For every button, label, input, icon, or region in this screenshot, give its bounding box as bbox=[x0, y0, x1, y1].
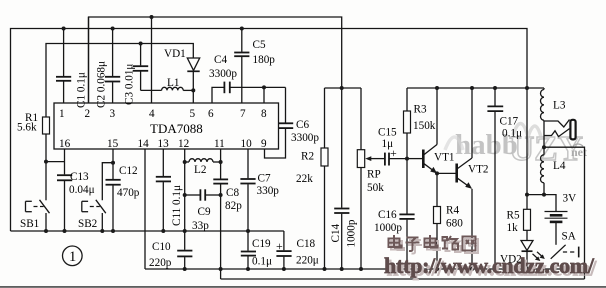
svg-text:220μ: 220μ bbox=[296, 255, 319, 267]
svg-text:C15: C15 bbox=[378, 127, 397, 139]
inductor L1 bbox=[141, 87, 194, 90]
resistor R1 bbox=[43, 117, 50, 200]
junction C17 bus bbox=[493, 86, 497, 90]
svg-text:1: 1 bbox=[69, 249, 76, 265]
svg-text:C13: C13 bbox=[70, 171, 89, 183]
svg-text:L1: L1 bbox=[167, 77, 179, 89]
svg-text:22k: 22k bbox=[296, 173, 313, 185]
svg-text:1k: 1k bbox=[507, 222, 519, 234]
junction VT1 collector bus bbox=[435, 86, 439, 90]
inductor L3 bbox=[541, 88, 545, 120]
junction C9 right bbox=[219, 193, 223, 197]
junction C16 rail269 bbox=[405, 267, 409, 271]
svg-text:C2 0.068μ: C2 0.068μ bbox=[96, 61, 108, 108]
svg-text:+: + bbox=[390, 146, 397, 160]
svg-text:C14: C14 bbox=[330, 223, 342, 242]
svg-text:C6: C6 bbox=[296, 119, 309, 131]
svg-text:4: 4 bbox=[149, 108, 155, 120]
resistor R5 bbox=[524, 88, 531, 230]
wire: VT1 emitter node to VT2 base bbox=[437, 172, 456, 174]
svg-text:C18: C18 bbox=[297, 238, 316, 250]
rail: outer ground rail y=279 bbox=[221, 278, 585, 280]
svg-text:0.04μ: 0.04μ bbox=[69, 184, 95, 196]
svg-text:11: 11 bbox=[214, 138, 225, 150]
svg-text:15: 15 bbox=[107, 138, 119, 150]
capacitor C17 bbox=[487, 88, 503, 269]
junction L2 left bbox=[183, 160, 187, 164]
wire: R1 top rail y=43.5 bbox=[46, 44, 193, 118]
svg-text:C12: C12 bbox=[119, 165, 138, 177]
resistor R4 bbox=[434, 173, 441, 269]
svg-text:10: 10 bbox=[241, 138, 253, 150]
svg-text:330p: 330p bbox=[257, 185, 280, 197]
svg-text:C9: C9 bbox=[198, 206, 211, 218]
capacitor C12 (pin15 column) bbox=[106, 149, 121, 231]
svg-text:+: + bbox=[276, 239, 283, 253]
capacitor C5 (pin7 column) bbox=[234, 29, 249, 104]
svg-text:R3: R3 bbox=[414, 104, 427, 116]
transistor VT2 bbox=[457, 88, 472, 269]
svg-text:C7: C7 bbox=[258, 173, 271, 185]
svg-text:3: 3 bbox=[110, 108, 116, 120]
wire: base feed to VT1 bbox=[407, 158, 422, 160]
capacitor C7 (pin10 column) bbox=[240, 149, 255, 231]
svg-text:7: 7 bbox=[240, 108, 246, 120]
svg-text:0.1μ: 0.1μ bbox=[252, 256, 272, 268]
earphone jack contact 2 bbox=[544, 129, 570, 137]
svg-text:2: 2 bbox=[85, 108, 91, 120]
svg-text:1: 1 bbox=[59, 108, 65, 120]
wire: pin2 column crossing bbox=[88, 17, 90, 103]
earphone plug bbox=[570, 120, 575, 140]
junction C13 rail231 bbox=[63, 229, 67, 233]
junction L3 L4 tap bbox=[542, 145, 546, 149]
capacitor C15 (electrolytic, coupling) bbox=[385, 153, 407, 166]
junction R3 C15 VT1 base bbox=[405, 157, 409, 161]
junction R1 pin16 jog bbox=[44, 160, 48, 164]
junction SB2 rail231 bbox=[100, 229, 104, 233]
diode VD1 (varicap) bbox=[187, 58, 199, 103]
svg-text:C10: C10 bbox=[152, 241, 171, 253]
capacitor C10 bbox=[177, 231, 192, 269]
switch SA bbox=[551, 245, 579, 259]
junction supply bus right bbox=[525, 86, 529, 90]
junction C9 left bbox=[183, 193, 187, 197]
inductor L2 bbox=[185, 159, 221, 162]
capacitor C16 bbox=[399, 159, 414, 269]
svg-text:C1 0.1μ: C1 0.1μ bbox=[76, 72, 88, 108]
junction R2 rail269 bbox=[323, 267, 327, 271]
junction mid bar bbox=[340, 86, 344, 90]
svg-text:L4: L4 bbox=[553, 160, 566, 172]
svg-text:8: 8 bbox=[261, 108, 267, 120]
svg-text:9: 9 bbox=[261, 138, 267, 150]
svg-text:TDA7088: TDA7088 bbox=[150, 121, 203, 136]
capacitor C1 (pin1 column) bbox=[56, 29, 71, 104]
svg-text:50k: 50k bbox=[367, 182, 384, 194]
junction pin8 C4 wire bbox=[262, 85, 266, 89]
svg-text:VD1: VD1 bbox=[164, 48, 186, 60]
junction pin15 jog bbox=[111, 161, 115, 165]
svg-text:12: 12 bbox=[178, 138, 189, 150]
wire: pin8 stub bbox=[263, 87, 265, 103]
capacitor C9 bbox=[185, 189, 221, 200]
junction C14 rail269 bbox=[340, 267, 344, 271]
junction C12 rail231 bbox=[111, 229, 115, 233]
capacitor C3 (varicap coupling) bbox=[133, 44, 148, 91]
transistor VT1 bbox=[423, 88, 437, 173]
svg-text:VT1: VT1 bbox=[434, 152, 455, 164]
svg-text:180p: 180p bbox=[253, 54, 276, 66]
wire: tap column between contacts and L4 bbox=[543, 121, 545, 155]
svg-text:C4: C4 bbox=[214, 54, 227, 66]
svg-text:3300p: 3300p bbox=[291, 132, 319, 144]
svg-text:82p: 82p bbox=[225, 200, 242, 212]
junction R4 rail269 bbox=[435, 267, 439, 271]
svg-text:R5: R5 bbox=[507, 210, 520, 222]
switch SB1 bbox=[26, 200, 50, 231]
wire: pin4 column bbox=[151, 17, 153, 103]
svg-text:16: 16 bbox=[59, 138, 71, 150]
diode VD2 (LED) bbox=[521, 230, 545, 269]
svg-text:13: 13 bbox=[158, 138, 170, 150]
junction VT2 emitter rail269 bbox=[470, 267, 474, 271]
rail: ground rail y=269 bbox=[145, 268, 585, 270]
junction C5 supply rail bbox=[240, 27, 244, 31]
svg-text:SB2: SB2 bbox=[78, 218, 97, 230]
svg-text:http://www.cndzz.com/: http://www.cndzz.com/ bbox=[384, 253, 595, 278]
capacitor C18 (electrolytic) bbox=[276, 231, 291, 269]
svg-text:150k: 150k bbox=[413, 120, 436, 132]
junction C3 top wire bbox=[139, 42, 143, 46]
earphone jack contact 1 bbox=[544, 120, 570, 128]
capacitor C2 (pin3 column) bbox=[105, 29, 120, 104]
junction C11 rail231 bbox=[161, 229, 165, 233]
wire: supply bus y=88 right section bbox=[407, 87, 544, 89]
svg-text:5.6k: 5.6k bbox=[17, 122, 37, 134]
switch SB2 bbox=[82, 200, 106, 231]
junction RP rail269 bbox=[359, 267, 363, 271]
junction L2 right bbox=[219, 160, 223, 164]
svg-text:SA: SA bbox=[562, 231, 576, 243]
svg-text:1000p: 1000p bbox=[346, 219, 358, 247]
junction pin11 rail269 bbox=[219, 267, 223, 271]
svg-text:R4: R4 bbox=[446, 205, 459, 217]
svg-text:SB1: SB1 bbox=[20, 218, 39, 230]
capacitor C4 with pin6 / pin8 wire y=87.4 bbox=[212, 82, 286, 103]
junction pin4 top rail bbox=[150, 15, 154, 19]
svg-text:C19: C19 bbox=[252, 238, 271, 250]
svg-text:3300p: 3300p bbox=[209, 68, 237, 80]
node circled-1 figure number bbox=[63, 246, 83, 266]
op IC U1 TDA7088 box bbox=[54, 103, 279, 149]
junction C2 supply rail bbox=[111, 27, 115, 31]
capacitor C8 (pin11 column) bbox=[213, 149, 228, 279]
wire: battery top feed y=194.6 bbox=[527, 195, 556, 211]
wire: tap to right edge y=147 bbox=[544, 147, 585, 279]
svg-text:C3 0.01μ: C3 0.01μ bbox=[124, 64, 136, 105]
junction L4 battery wire bbox=[542, 193, 546, 197]
resistor R2 bbox=[321, 88, 328, 269]
junction VT1 emitter R4 VT2 base bbox=[435, 171, 439, 175]
potentiometer RP bbox=[357, 88, 384, 269]
resistor R3 bbox=[404, 88, 411, 159]
junction VD2 rail269 bbox=[525, 267, 529, 271]
capacitor C11 (pin13 column) bbox=[156, 149, 171, 231]
svg-text:14: 14 bbox=[138, 138, 150, 150]
svg-text:C16: C16 bbox=[378, 209, 397, 221]
junction C10 rail269 bbox=[183, 267, 187, 271]
junction SB1 rail231 bbox=[44, 229, 48, 233]
junction VT2 collector bus bbox=[470, 86, 474, 90]
svg-text:C17: C17 bbox=[500, 116, 519, 128]
svg-text:R2: R2 bbox=[301, 151, 314, 163]
inductor L4 bbox=[541, 155, 545, 195]
svg-text:C8: C8 bbox=[226, 187, 239, 199]
svg-text:C5: C5 bbox=[253, 39, 266, 51]
svg-text:RP: RP bbox=[367, 169, 381, 181]
capacitor C14 bbox=[334, 88, 349, 269]
svg-text:33p: 33p bbox=[192, 220, 209, 232]
svg-text:6: 6 bbox=[208, 108, 214, 120]
battery GB 3V bbox=[545, 212, 568, 245]
capacitor C13 (pin16 column) bbox=[57, 149, 72, 231]
wire: pin12 column bbox=[184, 149, 186, 231]
svg-text:470p: 470p bbox=[117, 187, 140, 199]
wire: pin15 jog to SB2 bbox=[102, 163, 113, 201]
svg-text:3V: 3V bbox=[563, 193, 577, 205]
capacitor C19 bbox=[241, 231, 256, 269]
wire: pin14 column down to lower rail bbox=[144, 149, 146, 269]
junction C18 rail269 bbox=[282, 267, 286, 271]
svg-text:5: 5 bbox=[190, 108, 196, 120]
watermark habbuy gray (under circuit) bbox=[445, 123, 587, 168]
rail: V+ bottom rail y=231 bbox=[11, 230, 284, 232]
svg-text:VT2: VT2 bbox=[468, 164, 489, 176]
capacitor C6 (to pin9) bbox=[265, 87, 294, 158]
svg-text:0.1μ: 0.1μ bbox=[502, 128, 522, 140]
wire: pin16 to R1 column jog bbox=[46, 161, 65, 163]
svg-text:C11 0.1μ: C11 0.1μ bbox=[171, 185, 183, 226]
svg-text:L3: L3 bbox=[553, 100, 566, 112]
junction VD1 L1 pin5 bbox=[191, 88, 195, 92]
svg-text:1000p: 1000p bbox=[374, 222, 402, 234]
wire: top rail y=17 (pin2 to mid column) bbox=[89, 17, 342, 103]
border: bottom scan edge bbox=[0, 286, 606, 288]
junction C19 rail269 bbox=[246, 267, 250, 271]
svg-text:220p: 220p bbox=[149, 257, 172, 269]
svg-text:680: 680 bbox=[446, 218, 463, 230]
junction R5 battery wire bbox=[525, 193, 529, 197]
junction C10 rail231 bbox=[183, 229, 187, 233]
wire: mid distribution bar y=88 bbox=[325, 87, 362, 89]
junction C19 rail231 bbox=[246, 229, 250, 233]
junction C1 supply rail bbox=[62, 27, 66, 31]
wire: supply rail y=28.5 bbox=[11, 29, 528, 232]
svg-text:L2: L2 bbox=[194, 164, 206, 176]
